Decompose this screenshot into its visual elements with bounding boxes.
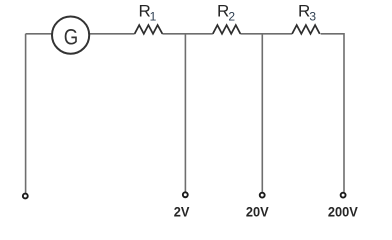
terminal (common) bottom-left [23,194,28,199]
wire vertical at node B down to 20V terminal [261,34,263,192]
svg-text:G: G [64,25,78,50]
wire galvanometer to R1 [89,33,134,35]
wire left horizontal from corner to galvanometer [26,33,52,35]
wire R2 to R3 [240,33,292,35]
svg-text:2: 2 [228,9,235,23]
terminal 20V [260,193,265,198]
resistor R3 [292,25,320,34]
wire vertical at node A down to 2V terminal [184,34,186,192]
svg-text:1: 1 [150,9,157,23]
svg-text:2V: 2V [174,204,190,220]
resistor R2 [213,25,241,34]
galvanometer G [52,16,89,53]
terminal 2V [183,192,188,197]
terminal 200V [341,193,346,198]
svg-text:3: 3 [309,9,316,23]
resistor R1 [135,25,163,34]
wire R1 to R2 [162,33,212,35]
wire left vertical down to terminal [25,34,27,193]
wire R3 to right corner and down to 200V terminal [321,34,344,192]
svg-text:20V: 20V [246,204,269,220]
svg-text:200V: 200V [328,204,358,220]
